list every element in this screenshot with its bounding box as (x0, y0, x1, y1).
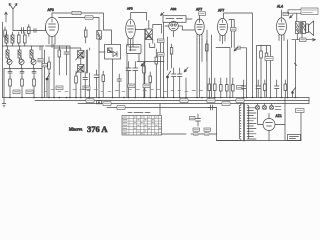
resistor R6 lower (33, 76, 36, 98)
svg-text:AF7: AF7 (218, 9, 224, 13)
wire left column drops (3, 46, 8, 62)
wire V1 grid lead (45, 27, 47, 31)
wire top feed V5-V6 (224, 13, 253, 98)
wire T4 primary leads (217, 104, 241, 141)
svg-text:AZ1: AZ1 (276, 114, 282, 118)
wire band link (3, 45, 45, 47)
capacitor C18 bottom row (202, 133, 217, 135)
resistor R25 (170, 44, 173, 68)
svg-text:AF3: AF3 (48, 8, 54, 12)
svg-text:Minerva: Minerva (69, 128, 82, 132)
capacitor C16 electrolytic (190, 114, 201, 126)
potentiometer P3 (234, 47, 238, 51)
measurement table (122, 116, 162, 136)
value label box bus area 4 (180, 99, 188, 103)
wire V1 cathode row (46, 45, 71, 47)
detector box (105, 45, 121, 60)
wire V4 couple vertical (197, 40, 202, 98)
wire chassis bus 1 (3, 97, 310, 99)
resistor R3 (24, 32, 27, 46)
wire V1 pins (49, 36, 55, 48)
value label long top right (301, 8, 318, 15)
resistor R16 (226, 78, 229, 98)
wire left verticals to chassis (4, 46, 42, 98)
resistor R12 (206, 40, 209, 61)
wire bottom rail (217, 140, 302, 142)
resistor R8 (48, 57, 51, 98)
wire heater line (160, 104, 186, 135)
value label AVC 2 (158, 53, 165, 57)
svg-text:AB2: AB2 (171, 7, 177, 11)
trimmer T3 (32, 69, 36, 77)
value label AVC 1 (158, 39, 165, 43)
variable capacitor CV2 (19, 58, 24, 69)
capacitor C15 on feed line (208, 105, 217, 110)
coil L3 (6, 46, 9, 62)
wire screen feed vertical (54, 44, 70, 98)
mains label 220V box (296, 109, 305, 113)
wire V3 top stub (174, 19, 193, 22)
wire vertical right mains (300, 112, 302, 141)
resistor R20 row (264, 80, 267, 98)
value label 380 (265, 57, 273, 61)
wire V6 pins (279, 10, 284, 98)
capacitor C19 (83, 72, 88, 98)
power transformer T4 secondary winding (247, 105, 249, 139)
tube V4 envelope (195, 19, 204, 35)
wire band switch verticals (40, 46, 45, 98)
wire bus 3 (78, 103, 309, 105)
wire V2 pins (128, 39, 133, 51)
power transformer T4 core (243, 104, 244, 142)
coil L5 (30, 46, 33, 62)
resistor R13 AVC row (208, 78, 211, 98)
wire V2 plate link (131, 13, 147, 30)
potentiometer arrow at indicator (161, 12, 165, 15)
wire output transformer leads (288, 34, 303, 98)
wire right edge vertical (308, 98, 310, 104)
resistor R15 (220, 78, 223, 98)
wire V6 grid link (257, 46, 271, 98)
value label under V2 (128, 84, 135, 88)
wire vertical right of rectifier (284, 98, 286, 141)
resistor R24 (85, 27, 88, 43)
wire grid stopper row (216, 48, 230, 98)
table header text (128, 111, 150, 113)
value label box bus area 2 (103, 102, 111, 106)
value label box on top link (72, 11, 81, 14)
svg-text:AL4: AL4 (277, 5, 283, 9)
value label box bus area 1 (86, 99, 94, 103)
value label 380b (300, 38, 307, 42)
value label AVC row (237, 86, 244, 90)
wire bus 2 (35, 100, 309, 102)
IF transformer T1 winding lower (76, 65, 85, 75)
dial lamp 3 (269, 105, 273, 109)
tube V6 envelope (277, 18, 287, 35)
antenna aux arrow (5, 12, 8, 22)
resistor R17 (232, 78, 235, 98)
lamp value labels (275, 107, 281, 110)
potentiometer arrow P1 (141, 62, 145, 66)
capacitor C9 (172, 68, 177, 98)
value label above C18 (204, 128, 211, 131)
resistor R1 antenna (28, 25, 31, 37)
wire V2 plate stub (130, 13, 132, 20)
resistor R21 row (284, 80, 287, 98)
wire V1 plate to top bus (51, 13, 53, 18)
resistor R10 (143, 62, 146, 98)
capacitor C20 (117, 74, 122, 98)
capacitor C6 (94, 70, 99, 98)
wire mixer link (137, 61, 164, 63)
variable capacitor CV1 (7, 58, 12, 69)
capacitor C10 (178, 68, 183, 98)
wire speaker frame (291, 39, 293, 41)
svg-text:AF3: AF3 (127, 7, 133, 11)
capacitor C1 in antenna lead (19, 28, 26, 34)
mains voltage selector box (288, 135, 301, 141)
wire bus 4 (107, 107, 217, 109)
capacitor C17 bottom row (191, 133, 202, 135)
wire V4 pins (197, 35, 202, 43)
antenna (9, 4, 17, 31)
resistor R14 (214, 78, 217, 98)
wire V5 anode drops (229, 20, 234, 48)
dial lamp 2 (262, 105, 266, 109)
potentiometer P4 tone (290, 15, 294, 19)
capacitor C13 row (256, 80, 261, 98)
IF transformer T1 winding upper (76, 51, 85, 61)
tone capacitor label (283, 12, 289, 15)
resistor R23 (149, 72, 152, 98)
capacitor C2 small (34, 29, 36, 33)
wire output top links (288, 10, 301, 21)
wire detector feed (104, 30, 112, 44)
svg-text:376 A: 376 A (87, 124, 108, 134)
resistor R26 left edge (4, 27, 7, 42)
wire antenna coupling horizontal (13, 30, 46, 32)
resistor R22 (102, 71, 105, 98)
value label left band 2 (26, 90, 33, 94)
svg-text:AF7: AF7 (196, 8, 202, 12)
grid cap box above V4 (199, 12, 206, 16)
wire IF-T2 leads (145, 20, 162, 97)
coil L6 mixer (97, 31, 102, 40)
resistor R4 lower (9, 76, 12, 98)
wire speaker field line with arrow (292, 38, 316, 41)
wire detector leads (99, 18, 113, 98)
value label mid band 1 (56, 86, 63, 90)
coil L1 (5, 32, 8, 46)
speaker (306, 21, 314, 36)
capacitor C11 (236, 46, 243, 50)
value label mid band 2 (83, 86, 90, 90)
switch mark on mains feed (294, 63, 296, 65)
wire rectifier leads (258, 110, 286, 141)
value label on band wire 1 (38, 59, 43, 62)
table cell marks (123, 117, 161, 134)
wire V3 leads (165, 26, 182, 37)
wire trimmer row link (4, 68, 42, 70)
tube V3 envelope AB2 (169, 21, 179, 31)
wire left edge vertical (2, 22, 4, 98)
wire osc box leads (127, 54, 139, 98)
value label box bus area 3 (117, 106, 125, 110)
resistor R2 (18, 32, 21, 46)
junction dots on chassis bus (10, 97, 296, 99)
wire mains feed vertical (295, 40, 297, 98)
value label left band (13, 90, 20, 94)
wire AVC drop (160, 40, 162, 98)
tube V2 envelope (126, 19, 136, 39)
fuse symbol between buses (97, 101, 102, 104)
switch S2 (167, 37, 171, 98)
resistor R7 under V1 (58, 46, 61, 75)
value label above C17 (193, 128, 200, 131)
value label box bus area 5 (207, 99, 215, 103)
coil L4 (18, 46, 21, 62)
resistor R11 (155, 49, 158, 98)
coil L2 (11, 32, 14, 46)
dial lamp 1 (255, 105, 259, 109)
wire V3 cathode drop (164, 22, 195, 97)
value label box bus area 7 (236, 99, 244, 103)
resistor R5 lower (21, 76, 24, 98)
wire V5 pins (220, 35, 225, 44)
trimmer T1 (8, 69, 12, 77)
value label box bus area 6 (222, 102, 230, 106)
power transformer T4 primary winding (239, 105, 241, 139)
rectifier tube AZ1 (263, 114, 275, 131)
tube V5 envelope (218, 18, 228, 35)
value label right of V5 (231, 28, 237, 32)
variable capacitor CV3 (31, 58, 36, 69)
ground symbol at chassis left (2, 98, 6, 107)
capacitor C5 under V1 (64, 46, 69, 75)
component value annotations row (44, 89, 203, 91)
switch S3 mains (292, 88, 296, 98)
oscillator box under V2 (127, 45, 142, 54)
value label under V2 b (143, 84, 150, 88)
resistor R18 (260, 45, 263, 98)
capacitor C12 row (242, 80, 247, 98)
potentiometer P2 volume (184, 68, 188, 98)
switch S1 wave change (46, 73, 50, 98)
wire top link V1-V2 upper (52, 13, 104, 30)
resistor R9 (75, 71, 78, 98)
value label on band wire 2 (42, 64, 47, 67)
tube V1 envelope (46, 18, 59, 37)
output transformer T3 (296, 22, 306, 34)
capacitor C7 (126, 62, 131, 98)
capacitor C14 row (275, 80, 280, 98)
resistor R19 (265, 46, 268, 98)
IF transformer T2 winding (145, 29, 152, 40)
wire top link V1-V2 lower (59, 17, 100, 19)
IF transformer T1 core (86, 50, 87, 73)
wire T4 secondary taps (248, 108, 256, 139)
band indicator box above V3 (163, 16, 186, 23)
capacitor C8 (133, 62, 138, 98)
wire lamps feed (258, 104, 272, 106)
trimmer T2 (20, 69, 24, 77)
wire vertical drop left of transformer (216, 108, 218, 141)
wire V5 couple vertical (207, 30, 212, 98)
value label box on lower link (85, 16, 93, 19)
wire coupling to V5 (243, 48, 247, 98)
wire V4 grid cap lead (199, 16, 201, 21)
wire IF-T1 leads (54, 48, 89, 98)
